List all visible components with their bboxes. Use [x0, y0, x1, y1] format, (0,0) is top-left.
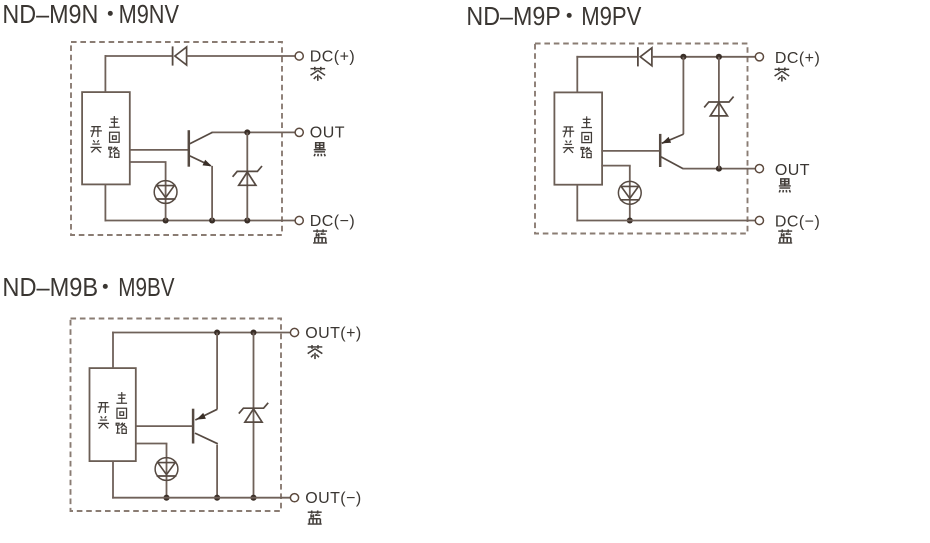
svg-text:ND–M9B: ND–M9B: [2, 274, 98, 302]
svg-text:M9PV: M9PV: [581, 3, 642, 31]
svg-text:OUT: OUT: [310, 125, 345, 142]
svg-text:DC(+): DC(+): [310, 48, 355, 65]
svg-text:OUT: OUT: [775, 162, 810, 179]
svg-text:DC(−): DC(−): [775, 214, 820, 231]
svg-text:DC(+): DC(+): [775, 50, 820, 67]
svg-text:M9NV: M9NV: [119, 1, 180, 29]
svg-text:OUT(−): OUT(−): [305, 490, 361, 507]
svg-text:OUT(+): OUT(+): [305, 325, 361, 342]
svg-text:ND–M9P: ND–M9P: [466, 3, 560, 31]
svg-text:M9BV: M9BV: [118, 274, 175, 302]
svg-text:DC(−): DC(−): [310, 213, 355, 230]
svg-text:ND–M9N: ND–M9N: [2, 1, 98, 29]
